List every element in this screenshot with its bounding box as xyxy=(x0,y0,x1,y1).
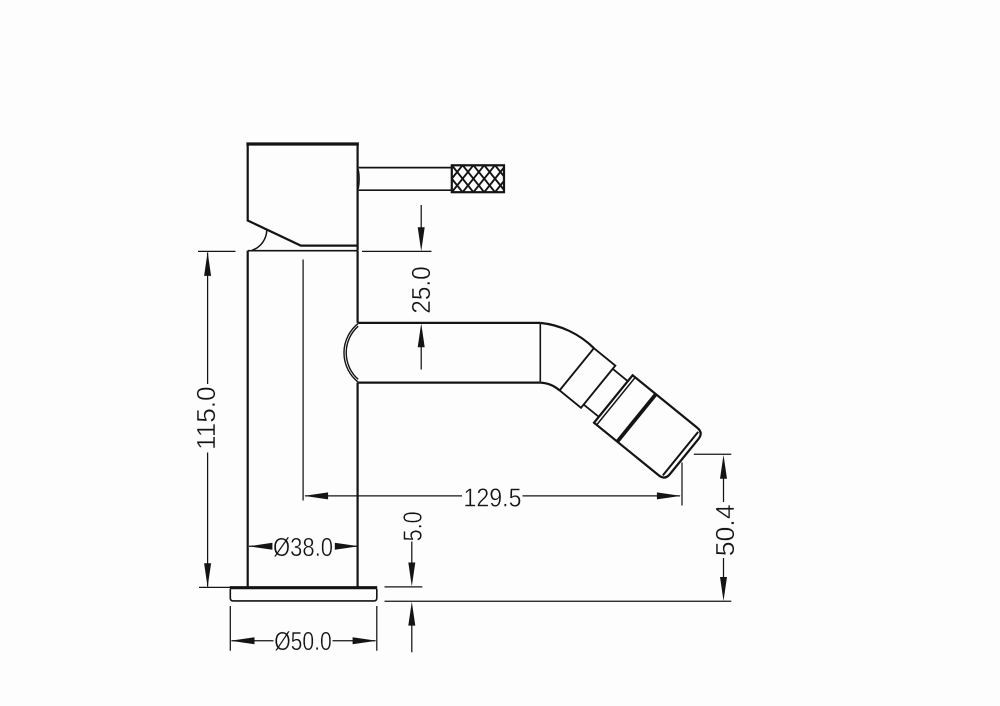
nozzle ring band xyxy=(617,394,656,441)
svg-text:115.0: 115.0 xyxy=(191,386,221,450)
faucet head body xyxy=(246,144,359,251)
dimension diameter 38.0 xyxy=(249,545,357,547)
angled nozzle assembly xyxy=(557,346,703,481)
svg-text:Ø38.0: Ø38.0 xyxy=(273,532,333,562)
spout bend inner arc xyxy=(540,383,559,391)
svg-text:50.4: 50.4 xyxy=(710,504,740,556)
dimension diameter 50.0 xyxy=(230,606,376,651)
nozzle body xyxy=(594,375,703,480)
dimension 25.0 xyxy=(362,205,432,370)
dimension 129.5 xyxy=(303,260,682,506)
dimension 5.0 xyxy=(385,542,732,653)
spout joint line xyxy=(539,324,541,382)
svg-text:129.5: 129.5 xyxy=(464,482,522,512)
spout horizontal tube xyxy=(358,323,540,383)
column body xyxy=(248,251,358,588)
bend collar xyxy=(560,348,616,408)
dimension 115.0 xyxy=(198,251,247,587)
base plate xyxy=(230,588,377,601)
handle lever xyxy=(358,168,452,191)
spout joint arcs at column xyxy=(344,323,358,382)
dimension 50.4 xyxy=(694,454,732,578)
nozzle chamfer line xyxy=(597,378,635,425)
svg-text:25.0: 25.0 xyxy=(406,266,436,314)
head-to-column fillet arc xyxy=(252,230,267,251)
spout bend outer arc xyxy=(540,323,594,348)
nozzle face line xyxy=(663,432,698,475)
neck xyxy=(584,369,628,417)
knurled grip xyxy=(430,165,538,192)
svg-text:Ø50.0: Ø50.0 xyxy=(274,626,332,656)
svg-text:5.0: 5.0 xyxy=(397,511,427,541)
